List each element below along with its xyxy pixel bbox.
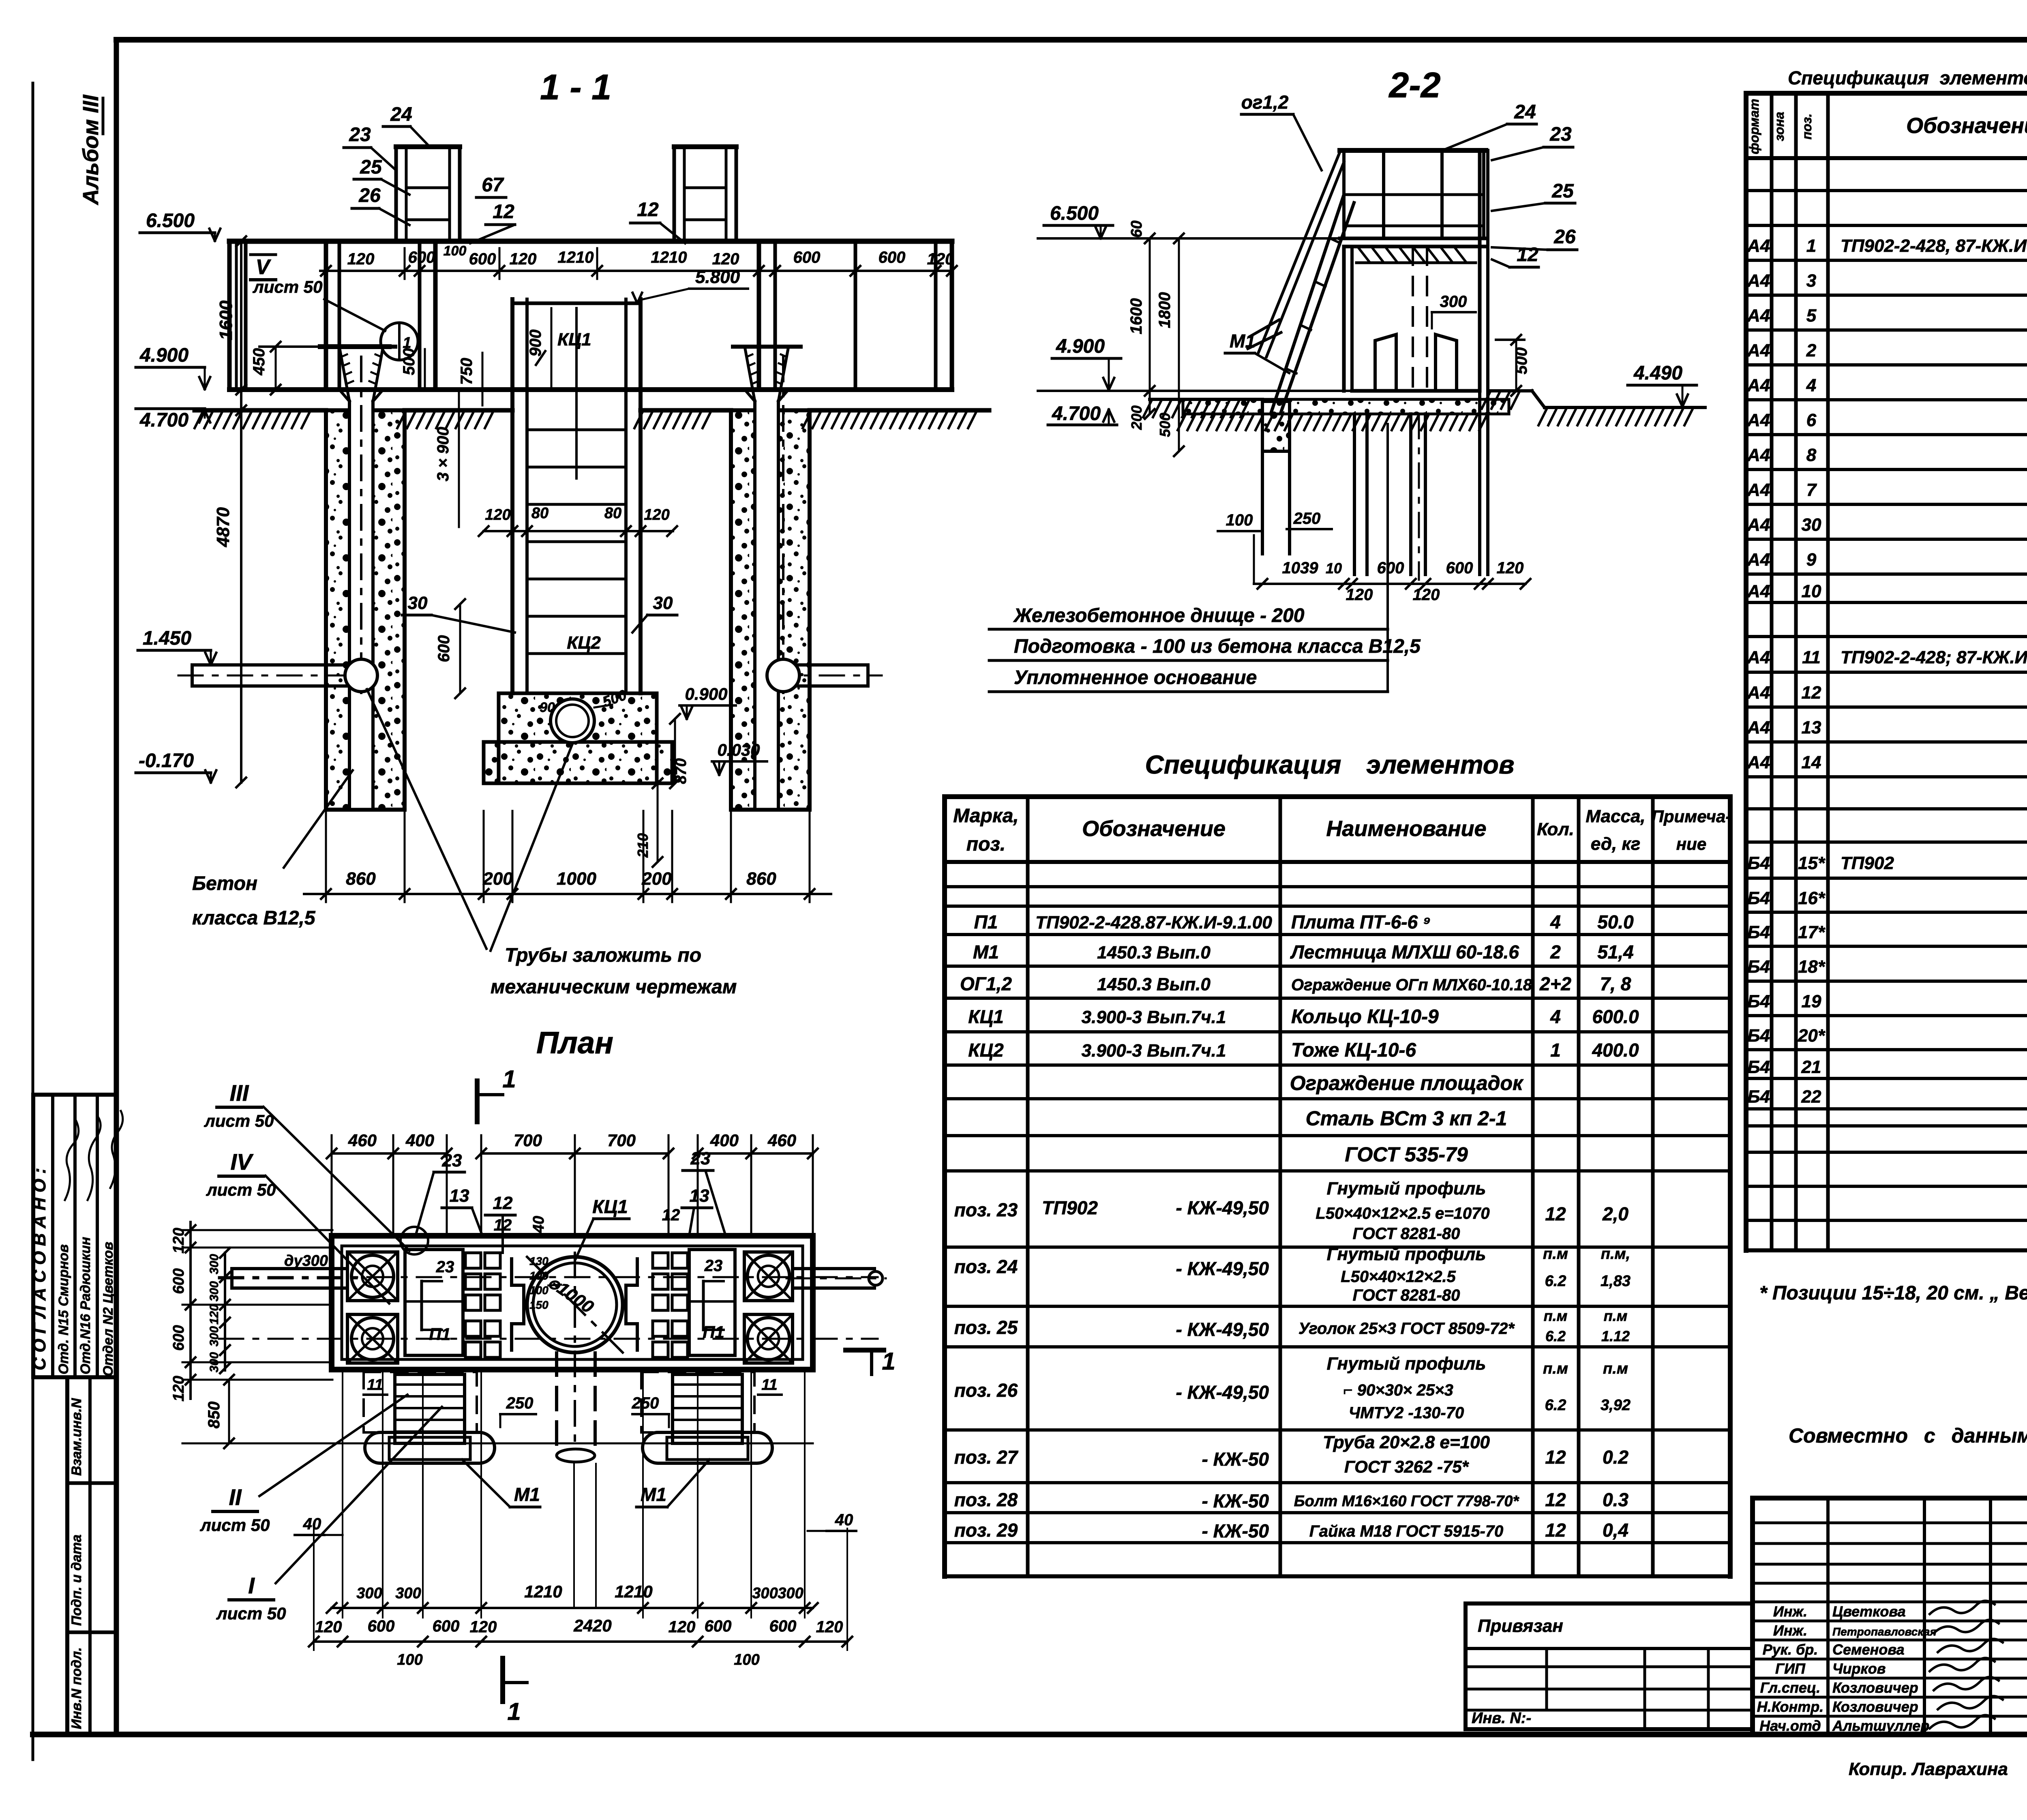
svg-text:А4: А4: [1747, 271, 1770, 291]
svg-text:26: 26: [358, 185, 381, 206]
svg-text:4.490: 4.490: [1633, 362, 1682, 384]
svg-text:10: 10: [1802, 581, 1821, 601]
svg-text:1210: 1210: [651, 249, 687, 266]
svg-text:600: 600: [170, 1268, 187, 1294]
svg-text:Н.Контр.: Н.Контр.: [1757, 1698, 1824, 1715]
svg-text:40: 40: [530, 1216, 547, 1233]
svg-text:Нач.отд: Нач.отд: [1759, 1717, 1821, 1734]
svg-text:⌐ 90×30× 25×3: ⌐ 90×30× 25×3: [1343, 1381, 1453, 1399]
svg-text:КЦ2: КЦ2: [968, 1040, 1004, 1061]
svg-text:L50×40×12×2.5 е=1070: L50×40×12×2.5 е=1070: [1316, 1205, 1489, 1222]
svg-text:Взам.инв.N: Взам.инв.N: [69, 1398, 84, 1476]
svg-text:6: 6: [1806, 410, 1817, 430]
svg-text:14: 14: [1802, 752, 1821, 772]
svg-text:поз. 29: поз. 29: [954, 1520, 1018, 1541]
svg-text:Семенова: Семенова: [1832, 1641, 1905, 1658]
svg-text:4.700: 4.700: [1052, 403, 1101, 424]
svg-text:0.2: 0.2: [1603, 1447, 1628, 1468]
svg-text:4: 4: [1550, 1006, 1561, 1027]
svg-text:6.2: 6.2: [1545, 1328, 1566, 1344]
svg-text:формат: формат: [1747, 99, 1761, 154]
svg-text:6.500: 6.500: [146, 210, 195, 232]
svg-text:2: 2: [1550, 941, 1561, 963]
svg-text:6.2: 6.2: [1545, 1397, 1566, 1414]
svg-text:40: 40: [303, 1515, 321, 1533]
svg-text:поз. 23: поз. 23: [954, 1199, 1018, 1220]
svg-text:5: 5: [1806, 306, 1817, 326]
svg-text:120: 120: [347, 250, 375, 268]
svg-text:30: 30: [1802, 515, 1821, 535]
svg-text:300: 300: [208, 1281, 221, 1301]
svg-text:600.0: 600.0: [1592, 1006, 1639, 1027]
svg-text:Примеча-: Примеча-: [1652, 807, 1731, 826]
svg-text:120: 120: [315, 1618, 342, 1636]
svg-text:1 - 1: 1 - 1: [540, 67, 611, 107]
svg-text:500: 500: [1157, 413, 1173, 437]
svg-text:1450.3 Вып.0: 1450.3 Вып.0: [1097, 975, 1211, 995]
svg-text:Отд.N16 Радюшкин: Отд.N16 Радюшкин: [78, 1237, 93, 1374]
svg-text:КЦ1: КЦ1: [592, 1196, 628, 1217]
svg-text:250: 250: [1293, 510, 1321, 527]
svg-text:п.м: п.м: [1544, 1308, 1568, 1324]
svg-text:300: 300: [208, 1326, 221, 1346]
svg-text:12: 12: [1545, 1203, 1566, 1224]
svg-text:11: 11: [761, 1376, 777, 1393]
svg-text:Инж.: Инж.: [1773, 1622, 1807, 1639]
svg-text:Уплотненное основание: Уплотненное основание: [1014, 667, 1257, 688]
svg-text:зона: зона: [1772, 112, 1787, 141]
svg-text:лист 50: лист 50: [216, 1604, 286, 1623]
svg-text:А4: А4: [1747, 515, 1770, 535]
svg-text:2: 2: [1806, 341, 1817, 360]
svg-text:Труба 20×2.8 е=100: Труба 20×2.8 е=100: [1323, 1432, 1490, 1452]
svg-text:250: 250: [506, 1394, 534, 1412]
svg-text:Спецификация элементов монал: Спецификация элементов моналитной констр…: [1788, 67, 2027, 88]
svg-text:21: 21: [1801, 1057, 1821, 1077]
svg-text:V: V: [256, 255, 272, 279]
svg-text:КЦ1: КЦ1: [968, 1006, 1003, 1027]
svg-text:2,0: 2,0: [1602, 1203, 1628, 1224]
svg-text:2-2: 2-2: [1388, 65, 1440, 105]
svg-text:п.м,: п.м,: [1601, 1245, 1630, 1263]
svg-text:0.030: 0.030: [717, 740, 760, 759]
svg-text:200: 200: [1128, 405, 1145, 430]
svg-text:120: 120: [470, 1618, 497, 1636]
svg-text:80: 80: [604, 505, 621, 522]
svg-text:120: 120: [669, 1618, 696, 1636]
svg-text:8: 8: [1806, 445, 1817, 465]
svg-text:Обозначение: Обозначение: [1082, 817, 1226, 841]
svg-text:12: 12: [494, 1216, 512, 1234]
svg-text:40: 40: [835, 1511, 853, 1529]
svg-text:860: 860: [346, 869, 376, 889]
svg-text:7: 7: [1806, 480, 1817, 500]
svg-text:1.450: 1.450: [143, 628, 191, 649]
svg-text:Козловичер: Козловичер: [1832, 1698, 1918, 1715]
svg-text:4.900: 4.900: [1056, 336, 1105, 357]
svg-text:Бетон: Бетон: [192, 873, 257, 894]
svg-text:Б4: Б4: [1747, 853, 1770, 873]
svg-text:Копир. Лаврахина: Копир. Лаврахина: [1849, 1759, 2008, 1779]
svg-text:120: 120: [485, 506, 510, 523]
svg-text:120: 120: [816, 1618, 843, 1636]
svg-text:300: 300: [752, 1585, 778, 1602]
svg-text:Отд. N15 Смирнов: Отд. N15 Смирнов: [56, 1244, 71, 1374]
svg-text:450: 450: [250, 348, 268, 376]
svg-text:16*: 16*: [1798, 888, 1826, 908]
svg-text:ТП902-2-428.87-КЖ.И-9.1.00: ТП902-2-428.87-КЖ.И-9.1.00: [1035, 913, 1272, 933]
svg-text:1600: 1600: [1127, 298, 1145, 334]
svg-text:ОГ1,2: ОГ1,2: [960, 973, 1012, 995]
svg-text:ТП902-2-428, 87-КЖ.И-9.0.01: ТП902-2-428, 87-КЖ.И-9.0.01: [1841, 236, 2027, 256]
svg-text:400.0: 400.0: [1592, 1040, 1639, 1061]
svg-text:600: 600: [1446, 559, 1473, 577]
svg-text:IV: IV: [231, 1149, 254, 1175]
svg-text:0,4: 0,4: [1603, 1520, 1628, 1541]
svg-text:3: 3: [1806, 271, 1816, 291]
svg-text:поз. 28: поз. 28: [954, 1489, 1018, 1510]
svg-text:поз.: поз.: [1800, 114, 1814, 139]
svg-text:900: 900: [527, 330, 544, 357]
svg-text:- КЖ-49,50: - КЖ-49,50: [1176, 1197, 1269, 1218]
svg-text:А4: А4: [1747, 752, 1770, 772]
svg-text:11: 11: [1802, 647, 1821, 667]
svg-text:Тоже КЦ-10-6: Тоже КЦ-10-6: [1291, 1040, 1416, 1061]
svg-text:класса В12,5: класса В12,5: [192, 907, 316, 929]
svg-text:Трубы заложить по: Трубы заложить по: [505, 945, 701, 966]
svg-text:24: 24: [390, 104, 412, 125]
svg-text:Ограждение площадок: Ограждение площадок: [1290, 1072, 1524, 1095]
svg-text:Гнутый профиль: Гнутый профиль: [1327, 1244, 1486, 1264]
svg-text:4870: 4870: [213, 507, 233, 547]
svg-text:17*: 17*: [1798, 922, 1826, 942]
svg-text:4: 4: [1806, 375, 1816, 395]
svg-text:100: 100: [1226, 511, 1253, 529]
svg-text:А4: А4: [1747, 480, 1770, 500]
svg-text:200: 200: [641, 869, 672, 889]
svg-text:КЦ2: КЦ2: [567, 633, 601, 653]
svg-text:II: II: [229, 1484, 242, 1510]
svg-text:200: 200: [482, 869, 513, 889]
svg-text:А4: А4: [1747, 375, 1770, 395]
svg-text:П1: П1: [974, 911, 998, 933]
svg-text:п.м: п.м: [1543, 1245, 1568, 1263]
svg-text:Инв. N:-: Инв. N:-: [1472, 1710, 1531, 1727]
svg-text:300: 300: [778, 1585, 803, 1602]
svg-text:механическим чертежам: механическим чертежам: [491, 976, 737, 998]
svg-text:Марка,: Марка,: [953, 805, 1019, 827]
svg-text:ТП902-2-428; 87-КЖ.И-9.0.05: ТП902-2-428; 87-КЖ.И-9.0.05: [1841, 647, 2027, 667]
svg-text:А4: А4: [1747, 581, 1770, 601]
svg-text:300: 300: [356, 1585, 382, 1602]
svg-text:30: 30: [653, 593, 673, 613]
svg-text:100: 100: [444, 243, 467, 259]
svg-text:- КЖ-49,50: - КЖ-49,50: [1176, 1258, 1269, 1279]
svg-text:460: 460: [348, 1131, 377, 1150]
svg-text:Петропавловская: Петропавловская: [1832, 1625, 1937, 1638]
svg-text:12: 12: [493, 1193, 513, 1213]
svg-text:12: 12: [1802, 683, 1821, 703]
svg-text:12: 12: [1545, 1520, 1566, 1541]
svg-text:3.900-3 Вып.7ч.1: 3.900-3 Вып.7ч.1: [1082, 1041, 1226, 1061]
svg-text:- КЖ-49,50: - КЖ-49,50: [1176, 1319, 1269, 1340]
svg-text:100: 100: [734, 1651, 759, 1668]
svg-text:300: 300: [1440, 293, 1467, 311]
svg-text:лист 50: лист 50: [200, 1516, 270, 1535]
svg-text:План: План: [536, 1026, 613, 1060]
svg-text:М1: М1: [1230, 330, 1256, 352]
svg-text:120: 120: [208, 1304, 221, 1325]
svg-text:700: 700: [514, 1131, 542, 1150]
svg-text:1,83: 1,83: [1601, 1273, 1631, 1290]
svg-text:Б4: Б4: [1747, 1087, 1770, 1107]
svg-text:1: 1: [1550, 1040, 1561, 1061]
svg-text:Б4: Б4: [1747, 922, 1770, 942]
svg-text:600: 600: [170, 1325, 187, 1351]
svg-text:Подп. и дата: Подп. и дата: [69, 1535, 84, 1626]
svg-text:Гайка М18 ГОСТ 5915-70: Гайка М18 ГОСТ 5915-70: [1309, 1522, 1504, 1540]
svg-text:Болт М16×160 ГОСТ 7798-70*: Болт М16×160 ГОСТ 7798-70*: [1294, 1493, 1520, 1510]
svg-text:А4: А4: [1747, 306, 1770, 326]
svg-text:поз. 26: поз. 26: [954, 1380, 1018, 1401]
svg-text:Рук. бр.: Рук. бр.: [1763, 1641, 1818, 1658]
svg-text:ед, кг: ед, кг: [1591, 834, 1640, 854]
svg-text:М1: М1: [973, 941, 999, 963]
svg-text:- КЖ-50: - КЖ-50: [1202, 1490, 1269, 1511]
svg-text:А4: А4: [1747, 550, 1770, 570]
svg-text:400: 400: [405, 1131, 434, 1150]
svg-text:30: 30: [408, 593, 428, 613]
svg-text:400: 400: [710, 1131, 739, 1150]
svg-text:25: 25: [360, 156, 382, 178]
svg-text:12: 12: [1545, 1489, 1566, 1510]
svg-text:I: I: [248, 1573, 255, 1598]
svg-text:22: 22: [1801, 1087, 1821, 1107]
svg-text:26: 26: [1553, 226, 1576, 248]
svg-text:0.900: 0.900: [685, 684, 727, 703]
svg-text:1600: 1600: [216, 300, 236, 340]
svg-text:120: 120: [1413, 586, 1440, 604]
svg-text:ГОСТ 3262 -75*: ГОСТ 3262 -75*: [1344, 1457, 1469, 1476]
svg-text:300: 300: [208, 1352, 221, 1372]
svg-text:600: 600: [879, 249, 906, 266]
svg-text:3 × 900: 3 × 900: [434, 427, 452, 482]
svg-text:Б4: Б4: [1747, 888, 1770, 908]
svg-text:1800: 1800: [1156, 292, 1174, 328]
svg-text:600: 600: [1377, 559, 1404, 577]
svg-text:600: 600: [435, 635, 453, 662]
svg-text:3,92: 3,92: [1601, 1397, 1631, 1414]
svg-text:А4: А4: [1747, 683, 1770, 703]
svg-text:1.12: 1.12: [1601, 1328, 1630, 1344]
svg-text:6.2: 6.2: [1545, 1273, 1566, 1290]
svg-text:М1: М1: [514, 1484, 540, 1505]
svg-text:120: 120: [927, 250, 954, 268]
svg-text:500: 500: [400, 348, 418, 375]
svg-text:300: 300: [395, 1585, 421, 1602]
svg-text:Лестница МЛХШ 60-18.6: Лестница МЛХШ 60-18.6: [1290, 941, 1519, 963]
svg-text:L50×40×12×2.5: L50×40×12×2.5: [1341, 1268, 1456, 1286]
svg-text:Совместно с данным: Совместно с данным см. л.л. КЖ -50, 51.: [1789, 1424, 2027, 1447]
svg-text:13: 13: [690, 1186, 709, 1206]
svg-text:Гнутый профиль: Гнутый профиль: [1327, 1179, 1486, 1198]
svg-text:Гнутый профиль: Гнутый профиль: [1327, 1354, 1486, 1374]
svg-text:60: 60: [1128, 221, 1145, 238]
svg-text:А4: А4: [1747, 341, 1770, 360]
svg-text:ГОСТ 8281-80: ГОСТ 8281-80: [1353, 1225, 1460, 1243]
svg-text:600: 600: [433, 1617, 460, 1635]
svg-text:12: 12: [1517, 244, 1538, 266]
svg-text:4: 4: [1550, 911, 1561, 933]
svg-text:300: 300: [208, 1254, 221, 1274]
svg-text:600: 600: [368, 1617, 395, 1635]
svg-text:ду300: ду300: [284, 1252, 328, 1269]
svg-text:90: 90: [540, 700, 555, 715]
svg-text:460: 460: [767, 1131, 796, 1150]
svg-text:Б4: Б4: [1747, 1057, 1770, 1077]
svg-text:120: 120: [510, 250, 537, 268]
svg-text:20*: 20*: [1798, 1026, 1826, 1046]
svg-text:Плита ПТ-6-6 ⁹: Плита ПТ-6-6 ⁹: [1291, 911, 1431, 933]
svg-text:ТП902: ТП902: [1042, 1197, 1098, 1218]
svg-text:12: 12: [662, 1206, 680, 1224]
svg-text:А4: А4: [1747, 236, 1770, 256]
svg-text:51,4: 51,4: [1597, 941, 1634, 963]
svg-text:- КЖ-50: - КЖ-50: [1202, 1520, 1269, 1541]
svg-text:Гл.спец.: Гл.спец.: [1760, 1679, 1820, 1696]
svg-text:11: 11: [367, 1376, 383, 1393]
svg-text:А4: А4: [1747, 410, 1770, 430]
svg-text:18*: 18*: [1798, 957, 1826, 977]
svg-text:Масса,: Масса,: [1586, 806, 1645, 826]
svg-text:п.м: п.м: [1543, 1360, 1568, 1377]
svg-text:80: 80: [531, 505, 549, 522]
svg-text:М1: М1: [641, 1484, 666, 1505]
svg-text:13: 13: [450, 1186, 469, 1206]
svg-text:Б4: Б4: [1747, 992, 1770, 1012]
svg-text:0.3: 0.3: [1603, 1489, 1628, 1510]
svg-text:10: 10: [1326, 560, 1342, 577]
svg-text:лист 50: лист 50: [204, 1111, 274, 1130]
svg-text:Наименование: Наименование: [1326, 817, 1486, 841]
svg-text:Кольцо КЦ-10-9: Кольцо КЦ-10-9: [1291, 1006, 1439, 1028]
svg-text:ог1,2: ог1,2: [1241, 92, 1289, 113]
svg-text:1: 1: [502, 1065, 516, 1093]
svg-text:Б4: Б4: [1747, 1026, 1770, 1046]
svg-text:поз. 25: поз. 25: [954, 1317, 1018, 1338]
svg-text:700: 700: [607, 1131, 636, 1150]
svg-text:600: 600: [793, 249, 821, 266]
svg-text:120: 120: [1497, 559, 1524, 577]
svg-text:15*: 15*: [1798, 853, 1826, 873]
svg-text:Железобетонное днище - 200: Железобетонное днище - 200: [1013, 605, 1305, 626]
svg-text:Кол.: Кол.: [1537, 819, 1574, 839]
svg-text:13: 13: [1802, 718, 1821, 737]
svg-text:23: 23: [704, 1257, 723, 1275]
svg-text:П1: П1: [429, 1325, 451, 1344]
svg-text:Чирков: Чирков: [1832, 1660, 1886, 1677]
svg-text:Инв.N подл.: Инв.N подл.: [69, 1647, 84, 1729]
svg-text:Спецификация элементов: Спецификация элементов: [1145, 750, 1514, 779]
svg-text:2420: 2420: [573, 1616, 611, 1635]
svg-text:Альтшуллер: Альтшуллер: [1832, 1717, 1929, 1734]
svg-text:ГИП: ГИП: [1775, 1660, 1806, 1677]
svg-text:50.0: 50.0: [1597, 911, 1634, 933]
svg-text:Альбом III: Альбом III: [79, 94, 103, 206]
svg-text:24: 24: [1514, 101, 1536, 123]
svg-text:1210: 1210: [524, 1582, 562, 1601]
svg-text:12: 12: [493, 201, 514, 223]
svg-text:-0.170: -0.170: [139, 750, 194, 772]
svg-text:п.м: п.м: [1604, 1308, 1628, 1324]
svg-text:п.м: п.м: [1603, 1360, 1628, 1377]
svg-text:Б4: Б4: [1747, 957, 1770, 977]
svg-text:120: 120: [1346, 586, 1373, 604]
svg-text:Обозначение: Обозначение: [1906, 114, 2027, 138]
svg-text:III: III: [230, 1080, 249, 1106]
svg-text:Цветкова: Цветкова: [1832, 1603, 1906, 1620]
svg-text:600: 600: [705, 1617, 732, 1635]
svg-text:4.700: 4.700: [139, 409, 189, 431]
svg-text:1450.3 Вып.0: 1450.3 Вып.0: [1097, 943, 1211, 963]
svg-text:6.500: 6.500: [1050, 203, 1099, 224]
svg-text:А4: А4: [1747, 718, 1770, 737]
svg-text:Подготовка - 100 из бетона: Подготовка - 100 из бетона класса В12,5: [1014, 636, 1421, 657]
svg-text:600: 600: [769, 1617, 797, 1635]
svg-text:1000: 1000: [557, 869, 596, 889]
svg-text:Привязан: Привязан: [1478, 1616, 1563, 1636]
svg-text:Ограждение ОГп МЛХ60-10.18: Ограждение ОГп МЛХ60-10.18: [1291, 976, 1532, 994]
svg-text:23: 23: [436, 1258, 454, 1276]
svg-text:Козловичер: Козловичер: [1832, 1679, 1918, 1696]
svg-text:600: 600: [408, 249, 435, 266]
svg-text:поз.: поз.: [966, 834, 1005, 855]
svg-text:9: 9: [1806, 550, 1817, 570]
svg-text:ГОСТ 535-79: ГОСТ 535-79: [1345, 1143, 1468, 1166]
svg-text:23: 23: [1549, 124, 1572, 145]
svg-text:7, 8: 7, 8: [1600, 973, 1631, 995]
svg-text:лист 50: лист 50: [206, 1180, 276, 1199]
svg-text:19: 19: [1802, 992, 1821, 1012]
svg-text:ГОСТ 8281-80: ГОСТ 8281-80: [1353, 1286, 1460, 1304]
svg-text:КЦ1: КЦ1: [557, 330, 591, 349]
svg-text:1: 1: [507, 1698, 521, 1725]
svg-text:120: 120: [170, 1228, 187, 1253]
svg-text:- КЖ-50: - КЖ-50: [1202, 1449, 1269, 1470]
svg-text:1210: 1210: [558, 249, 594, 266]
svg-text:120: 120: [712, 250, 739, 268]
svg-text:1: 1: [882, 1348, 895, 1375]
svg-text:поз. 27: поз. 27: [954, 1447, 1019, 1468]
svg-text:67: 67: [482, 174, 504, 196]
svg-text:250: 250: [632, 1394, 659, 1412]
svg-text:5.800: 5.800: [695, 267, 740, 287]
svg-text:4.900: 4.900: [139, 345, 189, 366]
svg-text:Инж.: Инж.: [1773, 1603, 1807, 1620]
svg-text:* Позиции 15÷18, 20 см.: * Позиции 15÷18, 20 см. „ Ведомость дета…: [1759, 1282, 2027, 1304]
svg-text:2+2: 2+2: [1539, 973, 1571, 995]
svg-text:850: 850: [205, 1402, 223, 1429]
svg-text:12: 12: [637, 199, 659, 221]
svg-text:23: 23: [349, 124, 371, 146]
svg-text:С О Г Л А С О В А Н О :: С О Г Л А С О В А Н О :: [30, 1168, 49, 1370]
svg-text:3.900-3 Вып.7ч.1: 3.900-3 Вып.7ч.1: [1082, 1008, 1226, 1027]
svg-text:1210: 1210: [615, 1582, 652, 1601]
svg-text:Отдел N2 Цветков: Отдел N2 Цветков: [101, 1242, 116, 1376]
svg-text:120: 120: [644, 506, 669, 523]
svg-text:лист 50: лист 50: [253, 277, 323, 296]
svg-text:- КЖ-49,50: - КЖ-49,50: [1176, 1382, 1269, 1403]
